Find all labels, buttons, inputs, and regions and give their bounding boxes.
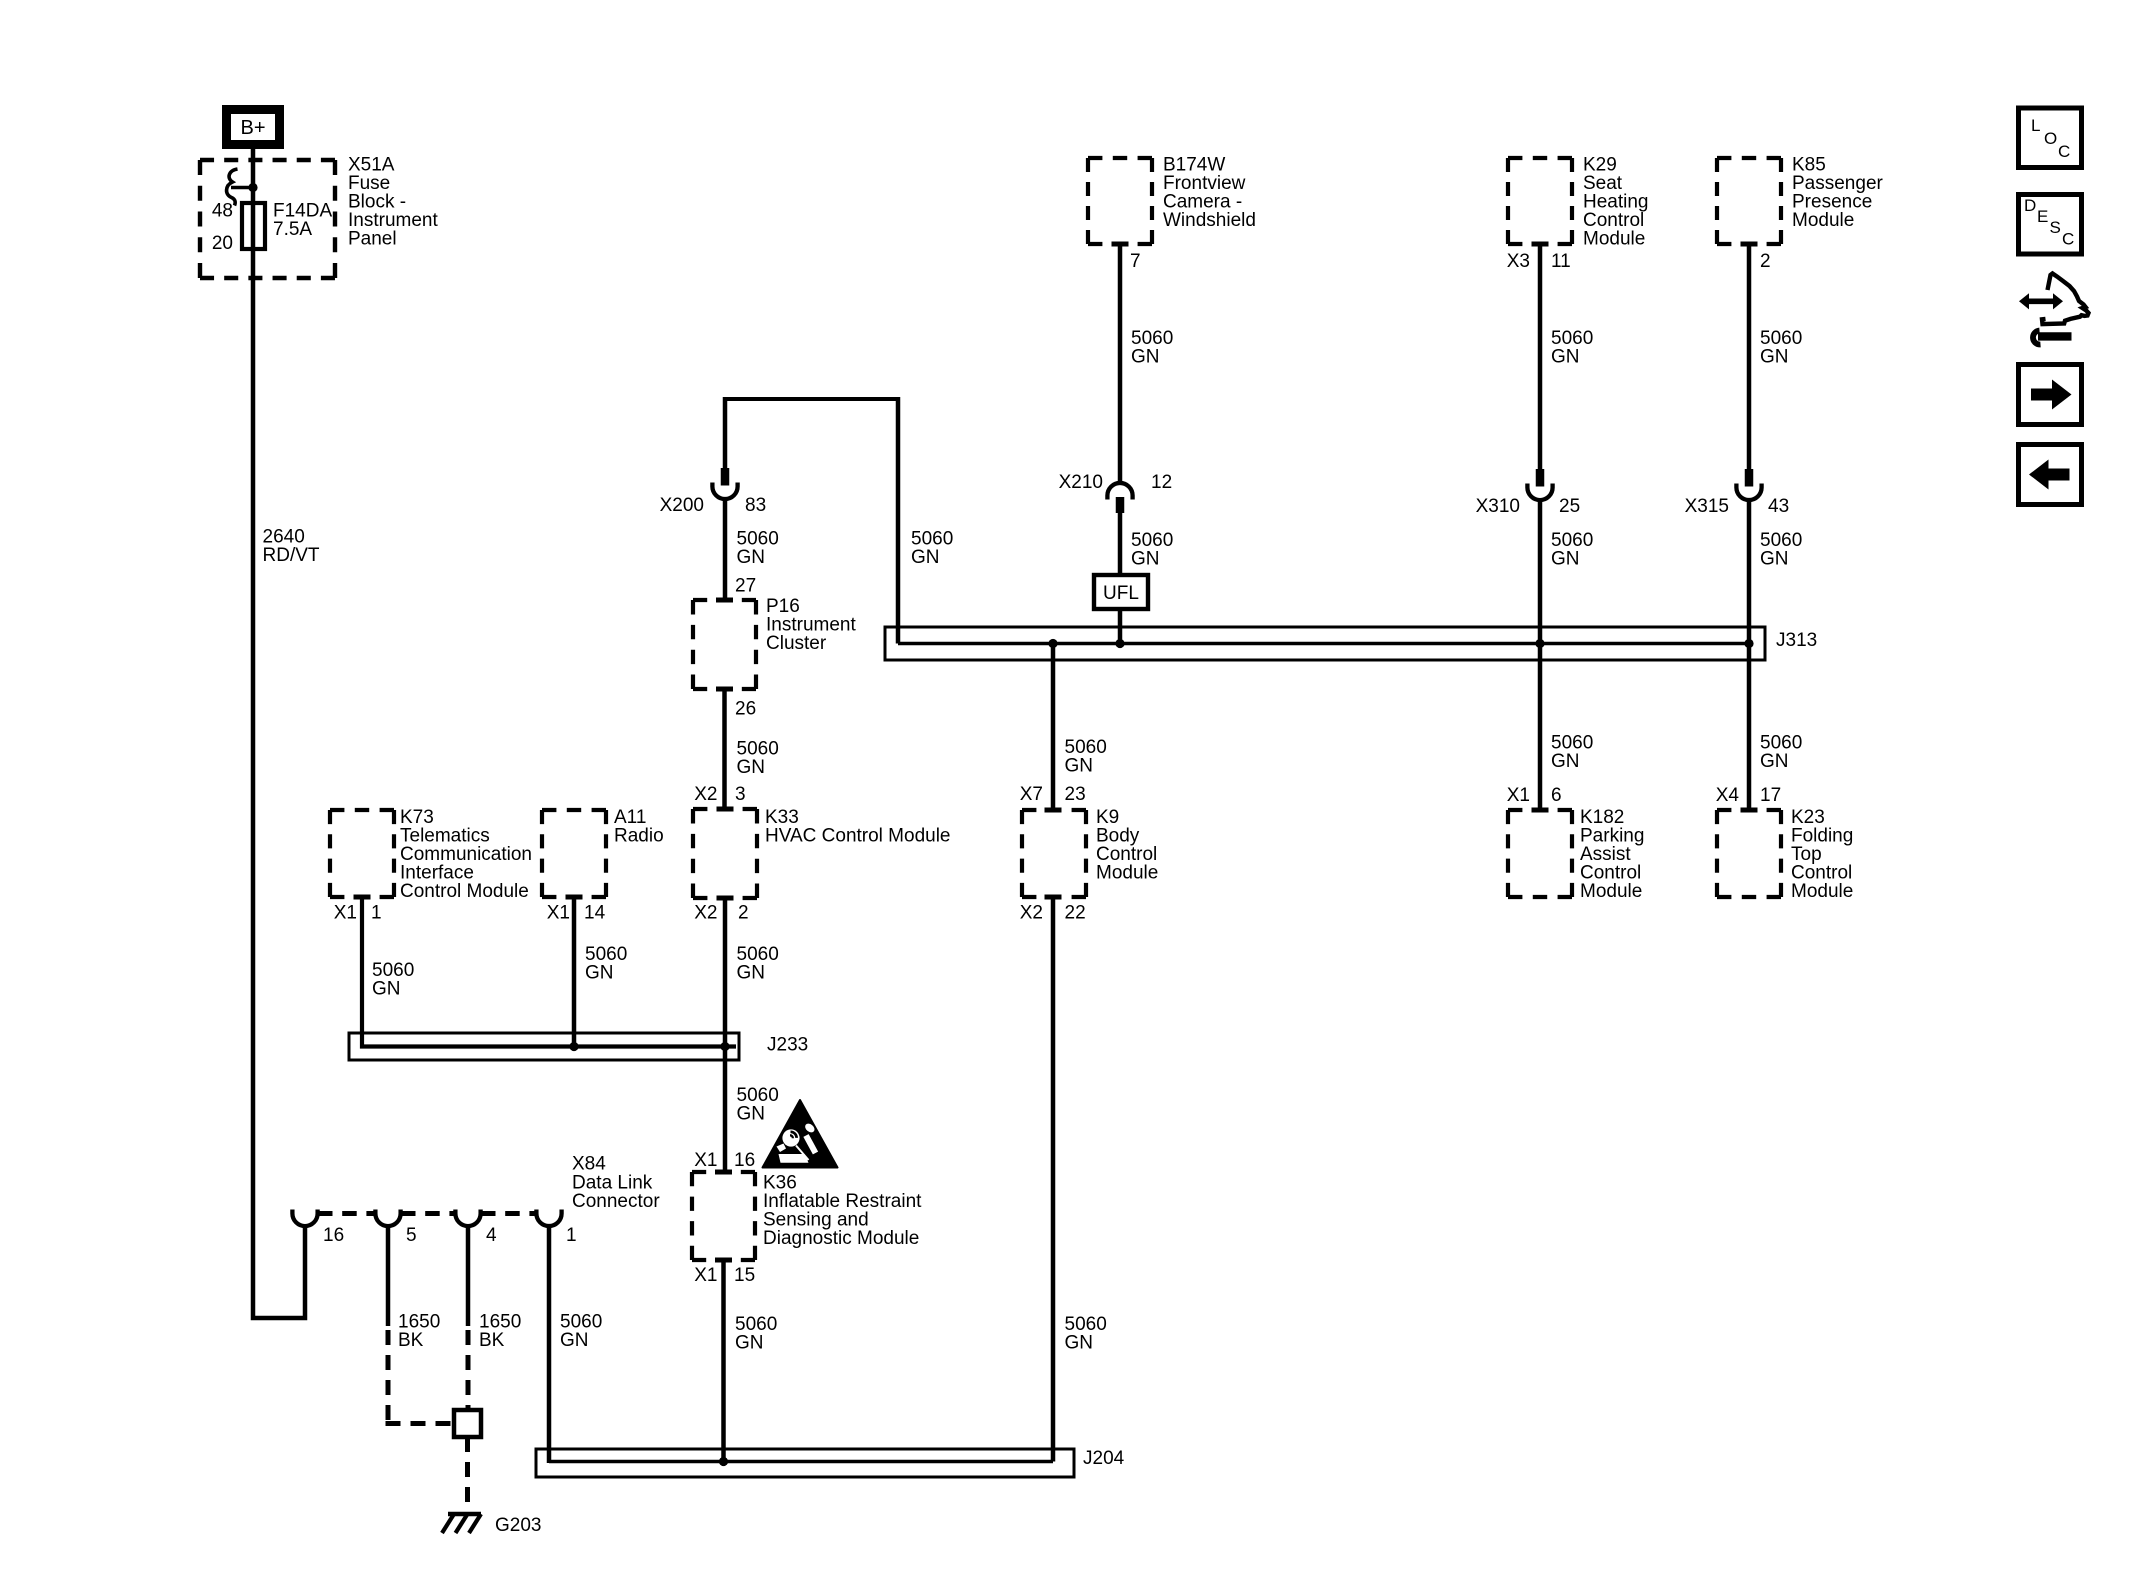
svg-text:E: E	[2037, 207, 2048, 226]
svg-text:14: 14	[584, 903, 606, 924]
svg-text:UFL: UFL	[1103, 583, 1139, 604]
svg-text:25: 25	[1559, 496, 1580, 517]
svg-text:Module: Module	[1096, 863, 1158, 884]
svg-text:Connector: Connector	[572, 1191, 660, 1212]
svg-text:17: 17	[1760, 785, 1781, 806]
svg-text:BK: BK	[398, 1330, 424, 1351]
svg-text:GN: GN	[372, 979, 401, 1000]
svg-text:GN: GN	[1551, 751, 1580, 772]
svg-text:GN: GN	[737, 757, 766, 778]
svg-text:48: 48	[212, 201, 233, 222]
svg-text:RD/VT: RD/VT	[263, 545, 320, 566]
svg-text:5: 5	[406, 1225, 417, 1246]
svg-text:GN: GN	[585, 963, 614, 984]
svg-text:12: 12	[1151, 472, 1172, 493]
svg-text:B+: B+	[240, 117, 265, 139]
svg-text:6: 6	[1551, 785, 1562, 806]
svg-text:2: 2	[738, 903, 749, 924]
svg-text:GN: GN	[560, 1330, 589, 1351]
svg-text:GN: GN	[1760, 751, 1789, 772]
svg-text:J233: J233	[767, 1035, 808, 1056]
svg-text:GN: GN	[1760, 347, 1789, 368]
svg-text:X200: X200	[660, 495, 704, 516]
svg-text:GN: GN	[1065, 1333, 1094, 1354]
svg-text:X2: X2	[694, 784, 717, 805]
svg-text:GN: GN	[735, 1333, 764, 1354]
svg-text:3: 3	[735, 784, 746, 805]
svg-text:Windshield: Windshield	[1163, 210, 1256, 231]
svg-text:Module: Module	[1792, 210, 1854, 231]
svg-text:GN: GN	[1131, 549, 1160, 570]
svg-text:43: 43	[1768, 496, 1789, 517]
svg-text:X1: X1	[547, 903, 570, 924]
svg-text:15: 15	[734, 1265, 755, 1286]
svg-text:Radio: Radio	[614, 826, 664, 847]
svg-text:23: 23	[1065, 784, 1086, 805]
svg-text:X210: X210	[1059, 472, 1103, 493]
svg-text:GN: GN	[1065, 756, 1094, 777]
svg-text:C: C	[2062, 230, 2074, 249]
svg-text:J313: J313	[1776, 630, 1817, 651]
svg-text:X1: X1	[1507, 785, 1530, 806]
svg-text:Module: Module	[1583, 229, 1645, 250]
svg-text:Panel: Panel	[348, 229, 397, 250]
svg-text:Diagnostic Module: Diagnostic Module	[763, 1228, 919, 1249]
svg-text:GN: GN	[737, 963, 766, 984]
svg-text:1: 1	[566, 1225, 577, 1246]
svg-text:16: 16	[323, 1225, 344, 1246]
svg-text:16: 16	[734, 1150, 755, 1171]
svg-text:GN: GN	[1551, 549, 1580, 570]
svg-text:GN: GN	[737, 1104, 766, 1125]
svg-text:X2: X2	[694, 903, 717, 924]
svg-text:D: D	[2024, 196, 2036, 215]
svg-text:X315: X315	[1685, 496, 1729, 517]
svg-text:Module: Module	[1791, 881, 1853, 902]
svg-text:X7: X7	[1020, 784, 1043, 805]
svg-text:7: 7	[1130, 251, 1141, 272]
svg-text:1: 1	[371, 903, 382, 924]
svg-text:GN: GN	[1131, 347, 1160, 368]
svg-text:Cluster: Cluster	[766, 633, 827, 654]
svg-text:11: 11	[1551, 251, 1571, 272]
svg-text:4: 4	[486, 1225, 497, 1246]
svg-text:Module: Module	[1580, 881, 1642, 902]
svg-text:X1: X1	[694, 1265, 717, 1286]
svg-text:2: 2	[1760, 251, 1771, 272]
svg-text:7.5A: 7.5A	[273, 219, 312, 240]
svg-text:20: 20	[212, 233, 233, 254]
svg-text:GN: GN	[911, 547, 940, 568]
svg-text:X1: X1	[694, 1150, 717, 1171]
svg-text:S: S	[2050, 218, 2061, 237]
svg-text:C: C	[2058, 142, 2070, 161]
svg-text:L: L	[2031, 116, 2040, 135]
svg-text:G203: G203	[495, 1515, 541, 1536]
svg-text:X310: X310	[1476, 496, 1520, 517]
svg-text:GN: GN	[737, 547, 766, 568]
svg-text:Control Module: Control Module	[400, 881, 529, 902]
svg-text:26: 26	[735, 699, 756, 720]
svg-text:X4: X4	[1716, 785, 1740, 806]
svg-text:X2: X2	[1020, 903, 1043, 924]
svg-text:GN: GN	[1760, 549, 1789, 570]
svg-text:O: O	[2044, 129, 2057, 148]
svg-text:22: 22	[1065, 903, 1086, 924]
svg-text:83: 83	[745, 495, 766, 516]
svg-text:J204: J204	[1083, 1448, 1125, 1469]
svg-text:GN: GN	[1551, 347, 1580, 368]
svg-text:BK: BK	[479, 1330, 505, 1351]
svg-text:X1: X1	[334, 903, 357, 924]
svg-text:27: 27	[735, 576, 756, 597]
svg-text:X3: X3	[1507, 251, 1530, 272]
svg-text:HVAC Control Module: HVAC Control Module	[765, 826, 951, 847]
